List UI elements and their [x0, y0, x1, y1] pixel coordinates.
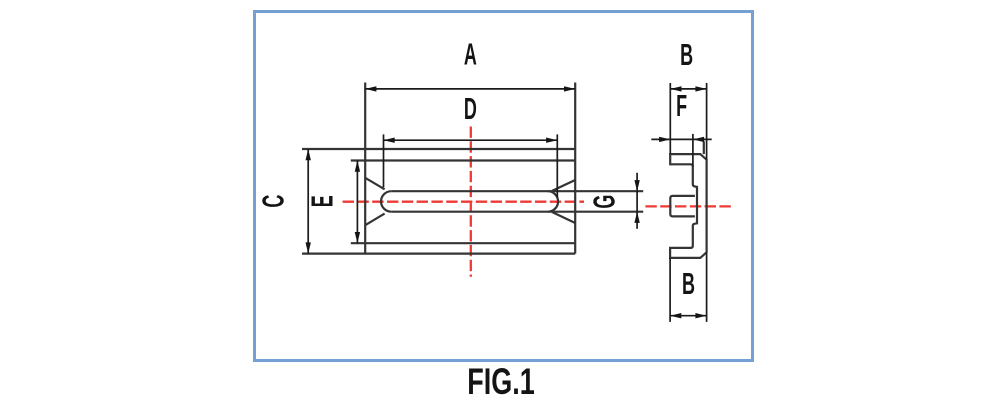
svg-text:F: F — [676, 89, 687, 123]
svg-text:E: E — [305, 195, 339, 207]
svg-text:G: G — [588, 195, 622, 209]
svg-text:D: D — [464, 92, 477, 126]
svg-text:C: C — [257, 195, 291, 208]
svg-text:FIG.1: FIG.1 — [467, 361, 535, 400]
svg-text:B: B — [680, 38, 693, 72]
svg-text:B: B — [682, 267, 695, 301]
svg-text:A: A — [464, 38, 477, 72]
